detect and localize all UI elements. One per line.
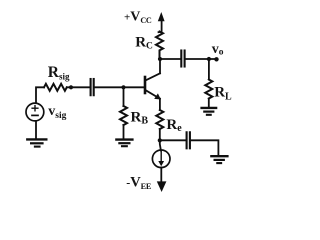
label -V_EE	[126, 175, 152, 191]
label R_L	[214, 85, 232, 103]
node RL junction	[207, 57, 211, 61]
wire RB bottom lead	[123, 125, 125, 139]
ground (bypass)	[211, 156, 227, 163]
label R_e	[166, 117, 182, 134]
wire emitter down to Re	[159, 99, 161, 110]
resistor R_sig	[44, 84, 67, 91]
label v_sig	[48, 104, 66, 121]
resistor R_B	[120, 106, 127, 125]
node emitter	[158, 138, 162, 142]
wire RL top lead	[208, 59, 210, 80]
voltage source Vsig	[26, 103, 44, 121]
resistor R_L	[205, 80, 212, 99]
wire RB top lead	[123, 87, 125, 106]
wire output cap to vo terminal	[186, 58, 217, 60]
ground (vsig)	[27, 139, 46, 146]
resistor R_C	[156, 32, 163, 60]
ground (RL)	[202, 108, 217, 115]
wire emitter node to bypass cap	[160, 139, 186, 141]
label v_o	[212, 42, 224, 58]
power +VCC arrow	[158, 12, 165, 32]
power -VEE arrow	[157, 167, 167, 192]
label R_sig	[48, 64, 70, 81]
label +V_CC	[124, 10, 152, 25]
wire capacitor to base	[95, 86, 144, 88]
wire collector node to output cap	[160, 58, 180, 60]
wire vsig top lead to Rsig	[36, 87, 44, 103]
label R_C	[135, 34, 153, 51]
wire Rsig to capacitor	[67, 86, 90, 88]
wire collector up to node	[159, 59, 161, 73]
transistor Q1	[145, 73, 161, 99]
capacitor CC1 (input coupling)	[91, 79, 94, 95]
wire bypass cap to ground	[191, 140, 218, 156]
capacitor Cb (bypass)	[187, 132, 190, 148]
node base / RB junction	[121, 85, 125, 89]
node after Rsig	[69, 85, 73, 89]
ground (RB)	[116, 140, 132, 147]
label R_B	[131, 109, 149, 126]
node collector	[158, 57, 162, 61]
node vo terminal	[214, 57, 218, 61]
capacitor CC2 (output coupling)	[181, 51, 184, 67]
current source I	[152, 150, 170, 168]
resistor R_e	[156, 110, 163, 129]
wire Re bottom to emitter node	[160, 129, 161, 150]
wire RL bottom lead	[208, 99, 210, 108]
wire vsig bottom lead	[35, 121, 37, 139]
